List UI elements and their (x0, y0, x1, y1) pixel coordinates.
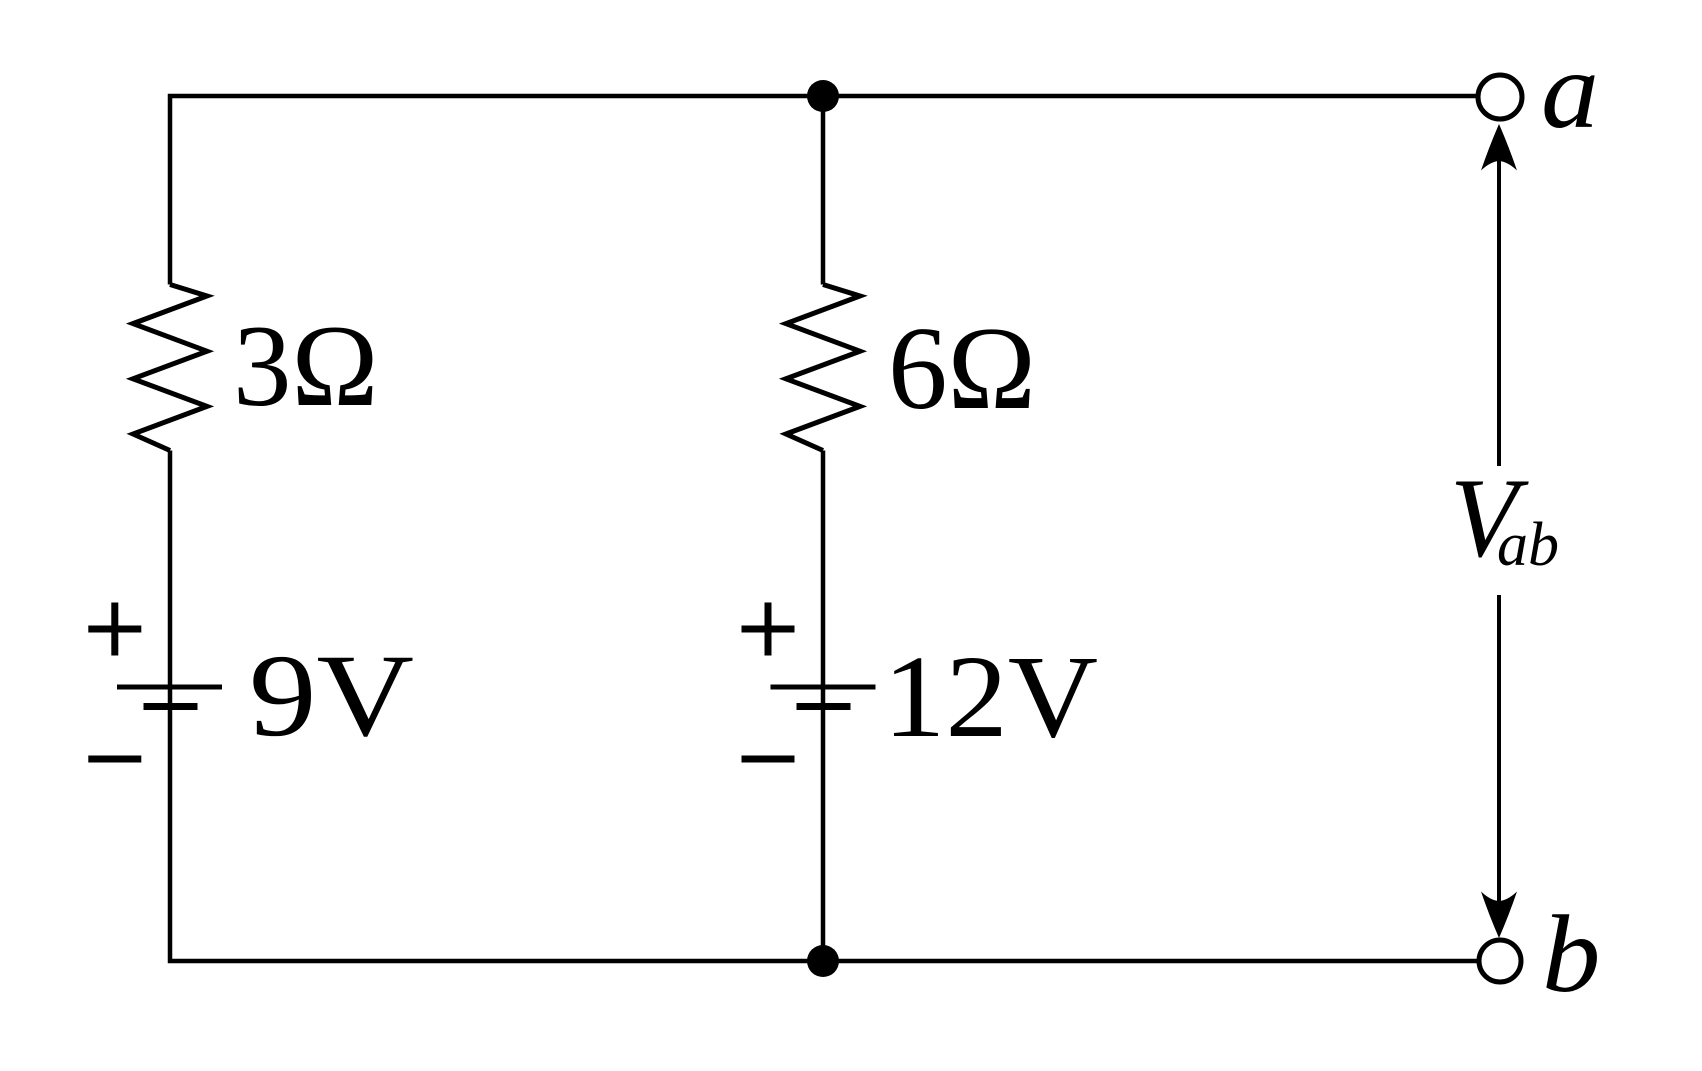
minus sign of V2 (742, 756, 795, 763)
battery V2 12V: long positive plate (771, 685, 876, 690)
wire: bottom rail from left branch through node to terminal b (170, 451, 1479, 962)
terminal a (open circle) (1478, 75, 1522, 119)
resistor R1 3ohm (left branch) (133, 285, 207, 451)
battery V2 12V: short negative plate (797, 703, 851, 710)
plus sign of V2 (742, 603, 795, 656)
svg-text:9V: 9V (249, 630, 414, 761)
resistor R2 6ohm (middle branch) (786, 285, 860, 451)
plus sign of V1 (88, 603, 141, 656)
svg-text:ab: ab (1497, 511, 1559, 579)
svg-text:b: b (1542, 893, 1601, 1015)
wire: middle branch lower segment (821, 451, 826, 962)
battery V1 9V: long positive plate (117, 685, 222, 690)
svg-text:6Ω: 6Ω (888, 302, 1036, 434)
junction node bottom (807, 945, 839, 977)
svg-text:a: a (1541, 29, 1599, 151)
wire: top rail from left branch through node to terminal a (170, 96, 1478, 285)
wire: middle branch upper segment (821, 96, 826, 285)
arrow shaft upper (Vab measurement arrow) (1497, 160, 1501, 466)
junction node top (807, 80, 839, 112)
terminal b (open circle) (1479, 940, 1521, 982)
arrowhead down at terminal b (1481, 892, 1517, 939)
svg-text:12V: 12V (883, 631, 1098, 762)
arrow shaft lower (1497, 595, 1501, 902)
arrowhead up at terminal a (1481, 124, 1517, 171)
svg-text:3Ω: 3Ω (233, 302, 378, 431)
minus sign of V1 (88, 756, 141, 763)
battery V1 9V: short negative plate (144, 703, 198, 710)
